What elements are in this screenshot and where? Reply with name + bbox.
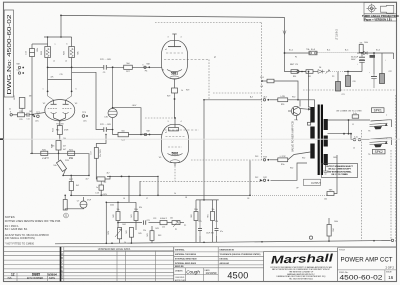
revision table thick divider — [60, 247, 62, 282]
svg-text:DATE: DATE — [49, 277, 56, 280]
B+ fuse F2 — [309, 51, 317, 55]
wire V4 anode lead — [174, 34, 176, 40]
material block rows — [174, 251, 264, 253]
wire B+ rail — [285, 52, 310, 54]
input cap C11 — [26, 113, 28, 117]
wire secondary top — [328, 119, 371, 121]
pad NFB tap 1 — [18, 66, 20, 68]
transformer T1 secondary windings — [324, 119, 328, 130]
dashed inner edge — [208, 60, 210, 100]
svg-text:-30V: -30V — [132, 105, 137, 107]
svg-text:R18: R18 — [51, 146, 54, 148]
svg-text:TBK: TBK — [329, 189, 334, 191]
wire coupling line after cap — [107, 66, 124, 68]
svg-text:DIMENSIONS IN: DIMENSIONS IN — [220, 250, 235, 252]
wire grid stopper to tube V4 — [132, 66, 161, 68]
svg-text:R52: R52 — [290, 168, 293, 170]
svg-text:82k: 82k — [139, 207, 142, 209]
wire cathode V5 to bias sense — [174, 163, 176, 167]
dwg number box (left edge, rotated) — [4, 10, 13, 97]
svg-text:b: b — [67, 44, 68, 46]
svg-text:R3x: R3x — [281, 164, 285, 166]
svg-text:a: a — [55, 44, 56, 46]
svg-text:4500-60-02: 4500-60-02 — [340, 274, 384, 281]
svg-text:a2: a2 — [165, 132, 167, 134]
svg-text:C: C — [61, 262, 63, 265]
bias resistor R61 — [211, 212, 215, 221]
svg-text:UNSPECIFIED HOLE DATA: UNSPECIFIED HOLE DATA — [98, 247, 131, 251]
svg-text:R15: R15 — [19, 119, 22, 121]
svg-text:10/10/90: 10/10/90 — [206, 271, 217, 275]
svg-text:R50: R50 — [292, 97, 295, 99]
svg-text:TOLERANCE (UNLESS OTHERWISE ST: TOLERANCE (UNLESS OTHERWISE STATED) — [220, 253, 261, 256]
screen resistor R30 — [291, 70, 298, 74]
wire below R23 — [71, 58, 73, 68]
svg-text:CHECKED: CHECKED — [175, 277, 185, 279]
output select box text — [326, 165, 354, 176]
wire secondary jack2 — [328, 133, 352, 135]
wire PI right plate leg — [71, 37, 73, 47]
wire right leg of NFB rail — [88, 153, 90, 175]
svg-text:R41: R41 — [131, 214, 133, 217]
svg-text:470R: 470R — [64, 130, 69, 132]
svg-text:P3: P3 — [332, 76, 334, 78]
SPK labels — [372, 108, 386, 154]
svg-text:82k: 82k — [78, 51, 80, 54]
svg-text:+: + — [385, 60, 386, 62]
capacitor C13 — [99, 185, 103, 190]
svg-text:C15: C15 — [59, 74, 62, 76]
wire down coupling bus to V5 — [72, 72, 104, 129]
resistor R33 above rail — [359, 45, 363, 53]
wire jack2 tail — [388, 138, 391, 145]
dotted margin line right — [395, 95, 397, 242]
dotted screen row segment — [324, 71, 344, 73]
svg-text:+: + — [369, 72, 370, 74]
wire screen rail — [285, 53, 298, 72]
pad V5 grid — [144, 133, 146, 135]
svg-text:R30: R30 — [293, 76, 296, 78]
svg-text:B+5: B+5 — [345, 50, 348, 52]
wire secondary link — [348, 120, 350, 134]
wire NFB riser — [249, 161, 251, 196]
svg-text:220k: 220k — [194, 209, 198, 211]
svg-text:P1: P1 — [175, 229, 177, 231]
preset P3 — [326, 70, 330, 74]
svg-text:1: 1 — [43, 89, 44, 91]
wire V5 coupling line — [107, 130, 118, 135]
wire V5 anode lead — [174, 118, 176, 125]
wire TBK up leg — [334, 155, 337, 194]
svg-text:SPK1: SPK1 — [374, 109, 382, 113]
svg-text:C11: C11 — [26, 119, 29, 121]
arrowhead on HT drop — [283, 31, 286, 35]
input pad 2 — [32, 114, 34, 116]
resistor R17 — [69, 182, 73, 191]
svg-text:D4: D4 — [319, 67, 321, 69]
svg-text:ISSUE: ISSUE — [386, 272, 392, 274]
svg-text:SPK2: SPK2 — [375, 150, 383, 154]
svg-text:(NO SIGNAL CONDITION): (NO SIGNAL CONDITION) — [5, 237, 35, 240]
transformer T1 core — [318, 105, 320, 176]
dotted NFB off-board segment — [250, 194, 327, 196]
third angle projection symbol — [368, 5, 375, 12]
wire input chain — [12, 114, 17, 116]
svg-text:C25: C25 — [198, 221, 201, 223]
wire below R22 — [47, 58, 49, 68]
svg-text:F2: F2 — [295, 57, 297, 59]
bias cap C24 — [160, 221, 167, 225]
wire C13 leg — [100, 190, 102, 195]
svg-text:10uF 35V: 10uF 35V — [206, 233, 215, 235]
wire presence lower rail — [63, 174, 89, 176]
svg-text:C20: C20 — [352, 81, 355, 83]
svg-text:J8: J8 — [185, 197, 187, 199]
resistor R13 — [63, 200, 67, 211]
preset P2 — [97, 177, 105, 181]
PI tube V2 ECC83 — [45, 100, 75, 121]
svg-text:-58V: -58V — [108, 230, 110, 235]
svg-text:ISS: ISS — [8, 277, 12, 280]
bias pot P4 — [118, 228, 122, 239]
capacitor C25 — [198, 228, 202, 230]
svg-text:L/2B: L/2B — [281, 96, 286, 98]
svg-text:VALVE POWER AMP PCB: VALVE POWER AMP PCB — [291, 121, 295, 152]
wire jack1 tail — [388, 120, 391, 127]
svg-text:47k: 47k — [51, 77, 54, 79]
wire bias R legs — [117, 202, 119, 211]
svg-text:R45: R45 — [138, 233, 141, 235]
tail resistor R16 — [57, 126, 62, 135]
svg-text:10k: 10k — [53, 165, 56, 167]
svg-text:5881: 5881 — [171, 152, 178, 156]
svg-text:470k: 470k — [45, 157, 49, 159]
svg-text:C21: C21 — [341, 94, 344, 96]
svg-text:x2: x2 — [65, 61, 67, 63]
svg-text:Marshall: Marshall — [271, 252, 335, 266]
svg-text:R16: R16 — [56, 130, 59, 132]
svg-text:C12: C12 — [162, 227, 165, 229]
jack SPK2 — [371, 138, 389, 139]
wire bias riser x131 — [128, 176, 130, 202]
svg-text:1k: 1k — [174, 193, 176, 195]
resistor R22 — [45, 47, 51, 58]
wire R51 row — [262, 80, 267, 82]
svg-text:R40: R40 — [113, 214, 115, 217]
svg-text:R29: R29 — [186, 90, 189, 92]
transistor TR1 — [291, 106, 300, 115]
svg-text:R31: R31 — [308, 76, 311, 78]
wire feedback R leg — [328, 218, 330, 225]
bias cap C23 — [143, 220, 145, 224]
svg-text:DRAWN: DRAWN — [175, 270, 183, 273]
dashed grid dashes V4 — [166, 52, 183, 54]
feedback resistor R34 — [327, 225, 331, 237]
wire coupling line to V4 grid — [48, 66, 104, 68]
right column : title cell — [337, 248, 339, 282]
bias resistor R42 — [129, 228, 133, 238]
connector blob — [370, 55, 376, 58]
svg-text:22n 250V: 22n 250V — [100, 148, 102, 156]
output T1 label box — [304, 179, 321, 185]
wire HT drop left to PI plates — [60, 15, 62, 37]
pad A-3 — [263, 99, 265, 101]
svg-text:TA8: TA8 — [146, 62, 149, 65]
cathode resistor V4 — [172, 88, 178, 93]
wire L2B row to centre tap — [300, 100, 315, 107]
svg-text:R15: R15 — [19, 111, 22, 113]
svg-text:47u: 47u — [220, 231, 223, 233]
svg-text:100k: 100k — [37, 48, 39, 52]
svg-text:R52: R52 — [302, 158, 305, 160]
svg-text:8: 8 — [10, 111, 11, 113]
svg-text:0.68uF 2: 0.68uF 2 — [160, 218, 167, 220]
svg-text:APPROVED: APPROVED — [175, 279, 186, 282]
wire HT drop right to B+ rail — [284, 17, 286, 53]
op tube V5 5881 — [162, 124, 189, 162]
wire L-TOP row1 — [270, 159, 278, 161]
TBK resistor — [327, 192, 334, 196]
wire bias block top rail right — [196, 199, 219, 201]
wire C7 stub — [64, 195, 66, 199]
svg-text:R44: R44 — [122, 224, 125, 226]
pad screen row — [297, 70, 299, 72]
revision table rows — [4, 250, 174, 252]
wire PI left grid stub — [47, 79, 49, 91]
filter cap C9 — [359, 56, 365, 58]
arrow to primary — [308, 108, 311, 111]
op tube V4 5881 — [162, 40, 188, 78]
svg-text:R43: R43 — [158, 235, 161, 237]
balloon mark on rail — [309, 236, 312, 239]
jack SPK1 — [371, 120, 389, 121]
svg-text:1n: 1n — [96, 187, 98, 189]
dotted / dashed off-board wires — [140, 23, 396, 243]
wire transistor collector to primary — [300, 108, 309, 111]
wire inter-tube link — [174, 79, 176, 89]
dashed jack drop 2 — [390, 150, 392, 241]
wire bias block top rail left — [106, 201, 136, 203]
svg-text:220k: 220k — [134, 209, 138, 211]
svg-text:L-TOP: L-TOP — [280, 156, 287, 158]
bias cap C20 cylinder — [346, 76, 351, 87]
resistor R27 grid stopper V4 — [124, 65, 133, 69]
wire bias riser x204 — [203, 100, 205, 200]
diode D4 — [318, 70, 322, 74]
diode D5 on rail — [364, 51, 368, 54]
svg-text:C17: C17 — [91, 151, 93, 154]
capacitor C30 bias — [108, 108, 117, 117]
fuse secondary 2 — [353, 138, 355, 140]
wire HT top rail — [61, 15, 285, 17]
svg-text:8k2: 8k2 — [76, 185, 79, 187]
pad L-TOP row — [263, 159, 265, 161]
wire secondary ground leg — [325, 165, 327, 171]
link primary tap — [308, 122, 311, 125]
fuse secondary 1 — [352, 115, 359, 118]
filter cap C10 — [371, 76, 377, 78]
wire B+ filter drop 2 — [373, 53, 375, 74]
svg-text:J1: J1 — [352, 124, 354, 126]
wire B+ filter drop 1 — [361, 53, 363, 57]
svg-text:RET CX: RET CX — [290, 64, 299, 66]
wire R17 leg — [70, 175, 72, 181]
ground secondary — [323, 171, 329, 174]
svg-text:OUTPUT: OUTPUT — [311, 182, 321, 185]
svg-text:MATERIAL THICKNESS: MATERIAL THICKNESS — [175, 253, 197, 256]
wire PI lower rail — [48, 67, 72, 79]
svg-text:4k7: 4k7 — [107, 173, 110, 175]
svg-text:B4 = GA05 REF. B4.: B4 = GA05 REF. B4. — [5, 228, 28, 231]
right cap C22 cylinder — [380, 74, 385, 84]
wire NFB rail — [30, 152, 89, 154]
svg-text:C23: C23 — [146, 220, 149, 222]
pad PI left — [37, 115, 40, 118]
screen resistor R31 — [306, 70, 313, 74]
svg-text:ON 2 X 12 COMBS: ON 2 X 12 COMBS — [331, 174, 348, 176]
wire right cap leg — [381, 53, 383, 74]
wire transistor emitter — [296, 116, 298, 121]
TITLEBLOCK — [4, 247, 397, 282]
dashed PCB box right edge — [261, 23, 263, 161]
fold mark left edge — [0, 138, 3, 140]
svg-text:g2: g2 — [214, 57, 216, 59]
svg-text:MATERIAL: MATERIAL — [175, 249, 185, 252]
svg-text:2 OF 2: 2 OF 2 — [385, 265, 394, 269]
svg-text:ANGULAR: ANGULAR — [220, 262, 230, 265]
svg-text:D: D — [61, 266, 63, 269]
capacitor C7 electrolytic — [80, 201, 87, 208]
svg-text:DOTTED LINES DENOTE WIRES OFF: DOTTED LINES DENOTE WIRES OFF THE PCB. — [5, 220, 61, 223]
wire B+ right end drop — [393, 53, 395, 59]
svg-text:22k: 22k — [143, 230, 146, 232]
svg-text:5881: 5881 — [171, 72, 178, 76]
svg-text:P1: P1 — [184, 225, 186, 227]
svg-text:4: 4 — [181, 121, 182, 123]
schematic small labels — [9, 28, 392, 244]
SCHEMATIC-WIRES — [30, 15, 394, 243]
svg-text:TA8: TA8 — [16, 63, 19, 66]
svg-text:J2: J2 — [353, 148, 355, 150]
svg-text:3: 3 — [168, 37, 169, 39]
svg-text:NOTES:: NOTES: — [5, 215, 16, 219]
bias resistor R60 — [194, 212, 198, 221]
svg-text:6: 6 — [143, 134, 144, 136]
svg-text:ON ALL COMBS EXCEPT: ON ALL COMBS EXCEPT — [328, 168, 351, 171]
marshall box — [264, 250, 338, 252]
svg-text:4n7: 4n7 — [86, 179, 89, 181]
wire V5 grid line — [128, 134, 161, 136]
svg-text:4: 4 — [181, 37, 182, 39]
svg-text:6: 6 — [143, 65, 144, 67]
svg-text:R34: R34 — [333, 228, 335, 231]
arrow P42 lead — [260, 179, 263, 182]
svg-text:BEND RE.: BEND RE. — [175, 266, 185, 268]
svg-text:TEL: MILTON KEYNES 75411: TEL: MILTON KEYNES 75411 — [289, 278, 313, 280]
balloon 21 — [64, 213, 69, 218]
link L2B — [278, 98, 288, 102]
wire to C13 node — [96, 135, 106, 148]
pad NFB tap 2 — [18, 72, 20, 74]
svg-text:6: 6 — [76, 89, 77, 91]
svg-text:5+4s: 5+4s — [353, 113, 357, 115]
wire NFB vertical from presence cap — [31, 44, 33, 49]
dashed jack drop 1 — [361, 130, 363, 241]
resistor R19 diagonal presence — [56, 160, 66, 171]
svg-text:TITLE: TITLE — [339, 249, 345, 251]
svg-text:J6: J6 — [123, 198, 125, 200]
svg-text:J7: J7 — [146, 198, 148, 200]
svg-text:Cough: Cough — [186, 270, 200, 275]
svg-text:A-3: A-3 — [250, 96, 253, 99]
projection box top right — [364, 2, 397, 21]
svg-text:R61: R61 — [208, 214, 210, 217]
resistor R21 — [68, 151, 75, 155]
capacitor C14 coupling top — [103, 65, 105, 70]
svg-text:P43: P43 — [255, 156, 258, 158]
svg-text:10n: 10n — [170, 218, 173, 220]
svg-text:INTERNAL BEND RADII: INTERNAL BEND RADII — [175, 262, 197, 265]
dashed cathode drop V5 — [174, 166, 176, 181]
svg-text:10k: 10k — [324, 199, 327, 201]
wire bias block left vertical — [105, 202, 107, 243]
svg-text:C8: C8 — [247, 198, 249, 200]
svg-text:C26: C26 — [215, 221, 218, 223]
dashed PCB box left edge — [213, 92, 262, 94]
resistor R51 — [267, 79, 274, 83]
wire PI plate supply rail — [44, 36, 72, 38]
svg-text:1k: 1k — [124, 242, 126, 244]
pad P42 row — [263, 179, 265, 181]
capacitor C26 — [215, 228, 219, 230]
svg-text:THIRD ANGLE PROJECTION: THIRD ANGLE PROJECTION — [362, 14, 399, 18]
svg-text:R43: R43 — [147, 233, 149, 236]
capacitor C16 presence — [30, 49, 35, 57]
resistor R20 — [41, 151, 48, 155]
resistor R23 — [69, 47, 75, 58]
svg-text:x1: x1 — [53, 61, 55, 63]
svg-text:16: 16 — [388, 275, 393, 280]
pad PI right — [82, 115, 85, 118]
svg-text:R42: R42 — [126, 230, 128, 233]
wire bias lower legs — [119, 239, 121, 243]
input resistor R15 — [18, 113, 25, 117]
bias resistor R43 — [150, 231, 154, 241]
svg-text:G: G — [61, 276, 63, 279]
dotted heater line — [303, 89, 396, 91]
svg-text:1k: 1k — [181, 90, 183, 92]
resistor R28 grid stopper V5 — [118, 132, 128, 136]
svg-text:3: 3 — [168, 121, 169, 123]
dashed grid dashes V5 — [166, 136, 185, 138]
bias preset P1 — [172, 221, 180, 225]
svg-text:+: + — [357, 64, 358, 66]
svg-text:R43: R43 — [155, 228, 158, 230]
bias cap C21 cylinder — [336, 82, 341, 92]
svg-text:ECN NUMBER: ECN NUMBER — [27, 277, 43, 280]
transformer T1 primary windings — [310, 107, 314, 123]
dashed L-TOP lead-in — [191, 159, 262, 161]
svg-text:4k7: 4k7 — [63, 146, 66, 148]
svg-text:TR1: TR1 — [294, 120, 297, 122]
pad V4 grid — [144, 66, 146, 68]
wire P42 row2 — [271, 163, 308, 180]
wire TBK from NFB — [326, 194, 328, 196]
svg-text:C18: C18 — [16, 70, 19, 72]
pad rail end — [391, 239, 393, 241]
svg-text:50W EXTENSION NORMAL: 50W EXTENSION NORMAL — [327, 170, 352, 173]
dashed line from V5 anode node — [145, 117, 174, 119]
